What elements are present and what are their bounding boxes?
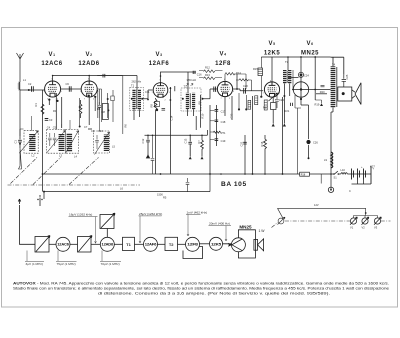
wire to T2 <box>158 243 166 245</box>
svg-text:R9: R9 <box>198 101 202 105</box>
resistor R17 box <box>271 103 276 110</box>
capacitor C2 <box>32 86 34 92</box>
wire R15 top <box>260 57 262 97</box>
wire mid leg down to bus <box>209 105 211 174</box>
junction dot AVC osc <box>152 135 154 137</box>
wire 79.7 vertical <box>79 98 81 127</box>
svg-text:1 W: 1 W <box>258 229 265 233</box>
node below C26 <box>308 157 310 159</box>
capacitor C12 <box>146 135 150 155</box>
resistor R15 box vertical <box>258 68 263 76</box>
supply diagonal to switch <box>278 208 284 218</box>
svg-text:12V: 12V <box>314 203 319 207</box>
T2 secondary winding <box>192 93 195 110</box>
heater dash line <box>272 221 391 228</box>
svg-text:C1: C1 <box>14 140 18 144</box>
junction dot bus 221 <box>220 173 222 175</box>
junction dot AVC R7 <box>201 135 203 137</box>
V2 cathode <box>86 93 92 97</box>
coil L10 <box>341 173 348 174</box>
block oscillator box <box>100 215 114 229</box>
svg-text:C3: C3 <box>49 118 53 122</box>
svg-text:R3: R3 <box>53 109 57 113</box>
svg-text:C18: C18 <box>221 120 226 124</box>
V5 plate <box>269 82 276 86</box>
coil L2 winding <box>29 134 35 151</box>
svg-text:AUTOVOX - Mod. RA 745. Apparec: AUTOVOX - Mod. RA 745. Apparecchio con v… <box>13 282 389 286</box>
T1 shield box dashed <box>130 87 144 110</box>
wire T4 bottom down <box>331 108 333 191</box>
cap pair near MN25 <box>291 103 293 106</box>
wire V5 right leg <box>282 97 284 174</box>
resistor R8 zigzag <box>154 98 157 174</box>
trimmer C4 <box>48 133 52 146</box>
wire V2 plate to rail <box>88 76 90 82</box>
svg-text:75μV (1 MHz): 75μV (1 MHz) <box>57 262 76 266</box>
V3 right vertical <box>170 86 174 114</box>
osc verticals <box>98 89 113 122</box>
block box T1 <box>123 237 135 250</box>
V1 pin blobs <box>48 99 50 101</box>
lower bus <box>44 191 210 193</box>
battery cell 1 <box>352 169 354 180</box>
svg-text:R19: R19 <box>315 103 320 107</box>
osc small box <box>111 96 114 101</box>
coil L4 winding <box>67 133 73 152</box>
MN25 emitter dot <box>300 98 302 100</box>
svg-text:C20: C20 <box>243 84 248 88</box>
gang bus dash-dot <box>8 184 141 186</box>
wire MN25 return to bus <box>297 108 299 174</box>
wire V3 plate top <box>161 72 197 82</box>
svg-text:20mV (400 Hz): 20mV (400 Hz) <box>209 222 230 226</box>
wire MN25 base feed <box>292 70 294 90</box>
wire antenna to chain <box>20 205 36 244</box>
resistor R19 drop arrow <box>315 100 321 103</box>
stub C19 <box>210 139 215 141</box>
junction dot T3 rail <box>287 56 289 58</box>
wire V5 plate up to rail <box>271 57 273 82</box>
T3 secondary winding <box>288 70 291 84</box>
svg-text:C23: C23 <box>279 98 284 102</box>
junction dot V2 plate <box>88 75 90 77</box>
T3 primary winding <box>283 70 286 84</box>
coil L1 <box>19 82 20 90</box>
V3 grids <box>156 87 165 89</box>
switch S2 <box>278 218 284 224</box>
svg-text:R12: R12 <box>205 66 210 70</box>
svg-text:C19: C19 <box>221 139 226 143</box>
svg-text:S1: S1 <box>334 176 338 180</box>
wire T1 top feed <box>136 76 138 90</box>
capacitor C16 on feed <box>193 71 195 74</box>
svg-text:262 kHz: 262 kHz <box>132 80 142 84</box>
MN25 triangle <box>232 239 242 251</box>
svg-text:R15: R15 <box>253 67 258 71</box>
junction dot AVC C13 <box>189 135 191 137</box>
svg-text:70μV (1 MHz): 70μV (1 MHz) <box>101 262 120 266</box>
stub C18 <box>210 120 215 122</box>
heater trimmer 2 <box>362 218 368 224</box>
junction dot bus 282 <box>282 173 284 175</box>
resistor ladder R24 <box>264 100 267 110</box>
capacitor C17 <box>215 110 219 112</box>
resistor R14 squiggle over V4 <box>225 73 246 89</box>
svg-text:R13: R13 <box>205 73 210 77</box>
V1 cathode <box>50 93 56 97</box>
T4 winding bar <box>331 66 336 107</box>
svg-text:12K5: 12K5 <box>211 242 221 246</box>
wire to 12AD6 <box>91 243 100 245</box>
wire battery bottom <box>352 180 372 185</box>
gang mechanical linkage <box>8 157 141 185</box>
signal level labels <box>25 210 231 266</box>
heater trimmer 1 <box>350 218 356 224</box>
jack circle <box>328 187 333 192</box>
wire bus to switch <box>331 173 334 175</box>
capacitor C23 <box>275 95 279 108</box>
wire to tuned 2 <box>70 243 78 245</box>
junction on rail at MN25 <box>300 56 302 58</box>
alignment arrows T2 <box>186 84 193 87</box>
svg-text:C7: C7 <box>84 125 88 129</box>
wire MN25 base up <box>300 57 302 82</box>
tube V1 envelope <box>45 81 61 97</box>
block circle 12F8 <box>186 237 200 251</box>
svg-text:C6: C6 <box>66 82 70 86</box>
tube V4 envelope <box>217 81 232 96</box>
V4 right cluster <box>239 93 246 108</box>
feedback loop 12F8 <box>183 247 203 259</box>
wire L10 to battery <box>347 173 371 175</box>
wire to 12K5 <box>200 243 210 245</box>
svg-text:12AD6: 12AD6 <box>102 243 114 247</box>
capacitor C28 tall <box>370 166 372 184</box>
svg-text:C12: C12 <box>141 138 145 143</box>
wire T4 top over <box>331 57 344 74</box>
svg-text:T1: T1 <box>126 242 131 247</box>
wire 12K5 to MN25 arrow <box>223 244 232 246</box>
trimmer C5 <box>53 133 57 146</box>
capacitor C19 <box>215 139 219 141</box>
svg-text:R20: R20 <box>320 90 325 94</box>
tuning box A dashed <box>24 131 38 154</box>
wire V4 right leg to bus <box>244 135 246 174</box>
svg-text:V3: V3 <box>374 226 378 230</box>
svg-text:16μV (1262 kHz): 16μV (1262 kHz) <box>69 213 92 217</box>
speaker neck <box>352 90 355 99</box>
svg-text:12AC6: 12AC6 <box>57 243 69 247</box>
svg-text:12AD6: 12AD6 <box>78 61 99 67</box>
block speaker cone <box>258 239 264 251</box>
capacitor C16 <box>214 87 216 92</box>
svg-text:R10: R10 <box>201 113 205 118</box>
wire T3 to C24 <box>288 77 299 79</box>
svg-text:MN25: MN25 <box>301 50 319 56</box>
speaker cone <box>355 83 361 105</box>
node R4 <box>107 109 109 111</box>
capacitor C25 <box>342 75 346 87</box>
node 79.7 end <box>79 126 81 128</box>
V5 grids <box>268 87 277 89</box>
capacitor C21 <box>243 142 247 144</box>
electrolytic C26 <box>306 140 310 144</box>
V1 grids <box>48 86 57 88</box>
T2 core <box>189 93 192 109</box>
wire B+ drop at 315 <box>314 57 316 100</box>
svg-text:C9: C9 <box>91 129 95 133</box>
resistor ladder R23 <box>248 100 251 109</box>
svg-text:di distensione. Consumo da 3 a: di distensione. Consumo da 3 a 3,6 ampèr… <box>98 292 330 296</box>
junction node V4-V5 <box>236 88 238 90</box>
wire R12 ends <box>199 71 220 78</box>
resistor R1 zigzag on down-wire <box>41 104 44 114</box>
svg-text:R5: R5 <box>163 196 167 200</box>
wire V4 cathode legs <box>225 96 232 120</box>
svg-text:C17: C17 <box>221 110 226 114</box>
T4 core lines <box>335 67 338 107</box>
block circle 12AC6 <box>56 237 70 251</box>
capacitor C24 blob <box>298 72 303 77</box>
resistor ladder R22 <box>255 96 258 105</box>
block circle MN25 <box>231 238 245 252</box>
wire osc coupling <box>151 135 155 174</box>
T2 primary winding <box>186 93 189 110</box>
tube pin numbers <box>44 79 282 102</box>
T1 primary winding <box>132 89 135 110</box>
wire T2 top feed <box>187 72 189 93</box>
R20 tick marks <box>321 86 325 87</box>
node antenna-grid <box>28 89 30 91</box>
node C1 <box>19 143 21 145</box>
svg-text:R7: R7 <box>197 140 201 144</box>
V4 plate <box>222 81 229 85</box>
T1 core <box>135 90 138 110</box>
scattered small labels <box>28 66 375 169</box>
svg-text:R1: R1 <box>34 103 38 107</box>
resistor R4 box tall <box>102 104 108 120</box>
svg-text:R6: R6 <box>124 124 128 128</box>
switch S1 <box>335 171 338 174</box>
svg-text:C10: C10 <box>98 129 103 133</box>
wire V2 lower <box>89 97 95 125</box>
trimmer C1 <box>18 136 22 148</box>
variable arrow B <box>47 131 65 153</box>
wire AVC line <box>145 130 208 135</box>
wire S1 to L10 <box>338 173 341 175</box>
V4 grids <box>221 86 230 88</box>
wire grid V1 from antenna coil <box>20 89 45 91</box>
svg-text:C26: C26 <box>313 140 318 144</box>
junction dot bus 210 <box>209 173 211 175</box>
junction dot bus 245 <box>244 173 246 175</box>
resistor R18 box on bus <box>300 172 310 176</box>
wire 252 leg <box>252 96 254 174</box>
svg-text:R18: R18 <box>301 174 306 177</box>
MN25 base line horizontal <box>292 89 309 91</box>
variable arrow A <box>19 131 38 154</box>
tube V2 envelope <box>81 81 97 97</box>
svg-text:C14: C14 <box>170 115 174 120</box>
block circle 12AF6 <box>144 237 158 251</box>
capacitor C3 <box>45 119 49 121</box>
junction dots on bus <box>42 173 44 175</box>
svg-text:C4: C4 <box>47 126 51 130</box>
coil L3 winding <box>59 134 65 151</box>
wire T1 sec to V3 grid <box>142 90 152 99</box>
wire stub below bus at 321 <box>320 174 322 184</box>
T1 secondary winding <box>138 89 141 110</box>
coil L5 winding <box>104 135 109 152</box>
wire top rail right <box>261 56 330 58</box>
svg-text:R8: R8 <box>150 104 154 108</box>
svg-text:R2: R2 <box>78 105 82 109</box>
heater supply line <box>278 207 366 209</box>
svg-text:R21: R21 <box>285 109 290 113</box>
T2 shield box dashed <box>181 88 201 111</box>
svg-text:V2: V2 <box>362 226 366 230</box>
svg-text:C22: C22 <box>229 113 233 118</box>
svg-text:3μV (1 MHz): 3μV (1 MHz) <box>26 262 43 266</box>
battery cell 3 <box>364 169 366 180</box>
V5 cathode <box>269 94 275 97</box>
gang diagonal 3 <box>69 158 99 185</box>
wire T2 out to V4 <box>203 89 218 99</box>
wire to 12AC6 <box>49 243 56 245</box>
variable arrow D <box>95 132 110 155</box>
transistor MN25 envelope <box>293 82 308 97</box>
svg-text:Stadio finale con un transisto: Stadio finale con un transistore; è alim… <box>13 287 389 291</box>
decoupling column vertical <box>215 105 217 146</box>
tuning box C dashed <box>66 130 79 154</box>
wire bus drop 210 <box>209 174 211 192</box>
wire V4 out to V5 <box>233 89 264 91</box>
V3 bias blob <box>156 109 158 111</box>
svg-text:12AC6: 12AC6 <box>41 61 62 67</box>
junction dot bus 252 <box>252 173 254 175</box>
svg-text:C: C <box>349 189 351 193</box>
svg-text:L10: L10 <box>341 168 346 172</box>
svg-text:12F8: 12F8 <box>187 243 198 247</box>
svg-text:R16: R16 <box>260 141 264 146</box>
heater trimmer 3 <box>374 218 380 224</box>
svg-text:C2: C2 <box>28 82 32 86</box>
block tuned circuit 1 <box>35 237 49 253</box>
junction dot V1 plate <box>52 75 54 77</box>
svg-text:R4: R4 <box>97 107 101 111</box>
wire B+ rail left <box>53 75 137 77</box>
svg-text:C11: C11 <box>145 90 150 94</box>
tube V5 envelope <box>264 82 279 97</box>
junction dot bus 265 <box>264 173 266 175</box>
capacitor C10 small <box>88 128 92 130</box>
svg-text:C5: C5 <box>53 126 57 130</box>
capacitor C6 <box>69 86 71 92</box>
gang diagonal 1 <box>11 157 38 184</box>
V5 cathode diagonal arrow <box>269 93 278 101</box>
V4 cathode <box>222 93 228 96</box>
block circle 12K5 <box>210 237 223 250</box>
V1 plate <box>49 81 56 85</box>
junction dot V3 plate <box>160 75 162 77</box>
svg-text:12K5: 12K5 <box>264 50 281 56</box>
wire V3 right down <box>169 114 171 175</box>
resistor R2 zigzag <box>79 100 82 118</box>
svg-text:12F8: 12F8 <box>215 61 231 67</box>
wire to T1 <box>114 243 122 245</box>
block labels <box>57 224 265 247</box>
wire T2 sec legs <box>187 109 193 116</box>
heater drop arrow <box>365 208 367 213</box>
svg-text:MN25: MN25 <box>239 224 252 229</box>
gang diagonal 2 <box>33 157 61 185</box>
wire V1 out to V2 grid <box>61 88 82 90</box>
wire V5 cathode <box>272 97 274 103</box>
wire 61.7 to box2 <box>61 124 63 128</box>
wire R17 down arrow <box>272 110 274 124</box>
wire osc to mixer <box>106 229 108 238</box>
wire V2 plate rail to osc <box>97 76 123 134</box>
speaker coil dot <box>342 92 345 95</box>
svg-text:C16: C16 <box>197 72 202 76</box>
junction dot AVC C12 <box>147 135 149 137</box>
wire boxA to V1 <box>31 116 33 131</box>
wire V1 plate to rail <box>52 76 54 82</box>
svg-text:RT1: RT1 <box>221 131 226 135</box>
V3 cap pair <box>162 108 166 110</box>
wire T3 bottom down <box>284 84 289 100</box>
capacitor C18 <box>215 120 219 122</box>
svg-text:C24: C24 <box>304 74 309 78</box>
junction dot bus 160 <box>160 173 162 175</box>
battery cell 2 <box>358 169 360 180</box>
svg-text:1mV (462 kHz): 1mV (462 kHz) <box>187 210 208 214</box>
capacitor on osc feed <box>103 74 105 78</box>
resistor R13 squiggle <box>204 77 215 80</box>
svg-text:V1: V1 <box>350 226 354 230</box>
wire V2 out down <box>97 89 101 104</box>
wire boxC top <box>69 120 71 130</box>
junction dot bus 331 <box>330 173 332 175</box>
V2 pin blobs <box>88 95 90 97</box>
wire T1 bottom legs <box>134 110 139 121</box>
capacitor C14b <box>186 178 190 192</box>
stub RT1 <box>210 131 213 133</box>
trimmer post symbol <box>39 198 41 207</box>
svg-text:T2: T2 <box>169 242 174 247</box>
wire MN25 collector to R20 <box>309 89 330 91</box>
heater gang dash 2 <box>381 220 391 222</box>
heater bracket <box>354 213 378 218</box>
thermistor RT1 squiggle <box>213 131 220 133</box>
tuning box B dashed <box>47 130 66 154</box>
coil L9 <box>331 152 333 168</box>
V3 dots <box>170 87 172 89</box>
tube V3 envelope <box>153 83 168 98</box>
capacitor C13 <box>188 135 192 156</box>
T2 junction dots <box>182 98 184 100</box>
wire osc box top <box>98 118 100 131</box>
wire antenna down <box>19 65 21 136</box>
svg-text:C13: C13 <box>184 138 188 143</box>
V2 grids <box>85 86 94 88</box>
resistor R16b squiggle <box>236 79 252 91</box>
svg-text:C8: C8 <box>102 110 106 114</box>
svg-text:12AF6: 12AF6 <box>145 243 157 247</box>
svg-text:BA 105: BA 105 <box>221 181 247 188</box>
wire T3 leg ground <box>283 99 285 124</box>
block tuned circuit 2 <box>78 237 92 253</box>
